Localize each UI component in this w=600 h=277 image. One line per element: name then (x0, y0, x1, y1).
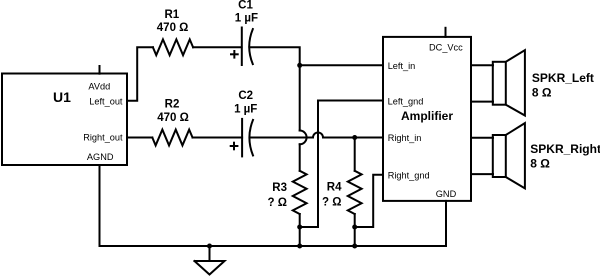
svg-text:R3: R3 (272, 182, 287, 194)
svg-text:Left_out: Left_out (89, 96, 123, 106)
svg-text:Amplifier: Amplifier (401, 109, 453, 123)
svg-text:? Ω: ? Ω (322, 197, 341, 209)
svg-text:Right_out: Right_out (83, 132, 123, 142)
svg-text:DC_Vcc: DC_Vcc (429, 43, 463, 53)
svg-text:GND: GND (436, 189, 457, 199)
svg-text:R2: R2 (165, 99, 180, 111)
svg-text:C1: C1 (238, 0, 253, 12)
svg-text:U1: U1 (53, 89, 71, 105)
svg-text:? Ω: ? Ω (268, 197, 287, 209)
svg-text:Left_gnd: Left_gnd (388, 96, 424, 106)
svg-text:1 µF: 1 µF (235, 13, 258, 25)
svg-text:SPKR_Left: SPKR_Left (532, 71, 594, 85)
svg-text:8 Ω: 8 Ω (530, 156, 550, 170)
svg-text:AVdd: AVdd (88, 82, 110, 92)
svg-text:1 µF: 1 µF (234, 103, 257, 115)
svg-text:Right_in: Right_in (388, 133, 422, 143)
svg-text:470 Ω: 470 Ω (157, 112, 189, 124)
svg-text:C2: C2 (238, 90, 253, 102)
svg-text:R4: R4 (327, 181, 342, 193)
svg-text:Right_gnd: Right_gnd (388, 170, 430, 180)
svg-text:R1: R1 (164, 9, 179, 21)
svg-text:SPKR_Right: SPKR_Right (530, 142, 600, 156)
svg-text:Left_in: Left_in (388, 61, 416, 71)
svg-text:AGND: AGND (87, 152, 114, 162)
svg-text:470 Ω: 470 Ω (157, 22, 189, 34)
svg-text:8 Ω: 8 Ω (532, 85, 552, 99)
